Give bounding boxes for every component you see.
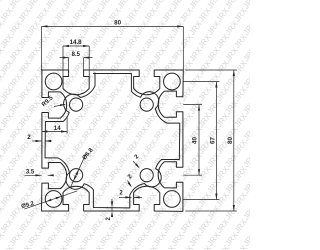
profile outer outline with 8 T-slots <box>42 70 184 212</box>
central plus-shaped cavity <box>45 73 180 208</box>
boss 1 hole (d6.8) <box>70 98 83 111</box>
corner hole 1 (d9.2) <box>45 73 62 90</box>
svg-text:67: 67 <box>210 137 217 144</box>
boss 3 hole (d6.8) <box>140 169 153 182</box>
dim 80 right <box>233 70 235 211</box>
dim 40 right <box>198 105 200 176</box>
corner hole 3 (d9.2) <box>164 191 181 208</box>
svg-text:14.8: 14.8 <box>70 39 83 46</box>
svg-text:3.5: 3.5 <box>26 169 35 175</box>
svg-text:8.5: 8.5 <box>72 52 81 58</box>
corner hole 4 (d9.2) <box>45 191 62 208</box>
boss 4 hole (d6.8) <box>70 169 83 182</box>
svg-text:14: 14 <box>54 125 61 132</box>
dim 67 right <box>215 82 217 200</box>
dim 2 left wall <box>32 140 42 142</box>
corner hole 2 (d9.2) <box>164 73 181 90</box>
svg-text:80: 80 <box>227 137 234 144</box>
dim 14.8 <box>63 45 89 47</box>
svg-text:2: 2 <box>27 134 31 141</box>
svg-text:40: 40 <box>192 137 199 144</box>
dim 80 top <box>42 25 184 27</box>
boss 2 hole (d6.8) <box>140 98 153 111</box>
dim 8.5 <box>60 57 69 59</box>
svg-text:80: 80 <box>114 20 121 27</box>
dim 14 left <box>42 131 68 133</box>
dim 3.5 lip <box>25 174 42 176</box>
